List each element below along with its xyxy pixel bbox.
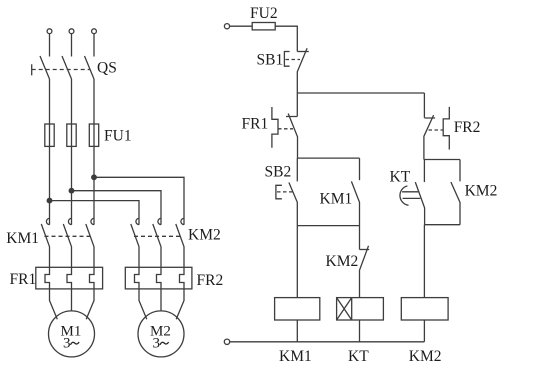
svg-text:KM1: KM1 (6, 230, 39, 247)
svg-text:KM2: KM2 (409, 348, 442, 365)
svg-text:KM2: KM2 (326, 253, 359, 270)
svg-text:FU1: FU1 (104, 128, 132, 145)
svg-text:KT: KT (390, 169, 411, 186)
svg-text:KM2: KM2 (465, 183, 498, 200)
svg-text:KM1: KM1 (320, 191, 353, 208)
svg-text:KM2: KM2 (188, 227, 221, 244)
svg-text:FR2: FR2 (454, 119, 481, 136)
svg-text:FR2: FR2 (197, 272, 224, 289)
svg-text:QS: QS (97, 60, 117, 77)
svg-text:3: 3 (63, 336, 71, 352)
svg-text:3: 3 (153, 336, 161, 352)
svg-text:FU2: FU2 (250, 5, 278, 22)
svg-text:KM1: KM1 (279, 348, 312, 365)
svg-text:FR1: FR1 (10, 271, 37, 288)
svg-text:KT: KT (348, 348, 369, 365)
svg-text:FR1: FR1 (242, 116, 269, 133)
svg-text:SB2: SB2 (265, 164, 292, 181)
svg-text:SB1: SB1 (257, 52, 284, 69)
